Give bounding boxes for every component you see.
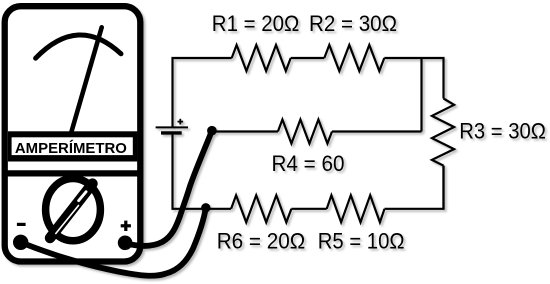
wire	[291, 57, 325, 59]
resistor R1	[232, 45, 291, 71]
wire bottom right	[385, 166, 444, 209]
node A (middle branch junction)	[207, 126, 217, 136]
svg-text:AMPERÍMETRO: AMPERÍMETRO	[15, 140, 127, 157]
svg-text:R2 = 30Ω: R2 = 30Ω	[309, 11, 397, 36]
probe wire positive	[125, 131, 212, 246]
wire	[291, 208, 326, 210]
svg-text:R4 = 60: R4 = 60	[272, 151, 345, 176]
resistor R2	[324, 45, 384, 71]
terminal positive	[118, 236, 133, 251]
wire top	[173, 58, 232, 127]
ammeter body (meter case)	[5, 6, 141, 261]
resistor R6	[231, 195, 291, 222]
divider line	[2, 170, 143, 176]
meter scale arc	[36, 35, 121, 58]
resistor R3	[432, 99, 454, 166]
wire	[332, 130, 422, 132]
wire vertical inner	[420, 58, 422, 132]
svg-text:R6 = 20Ω: R6 = 20Ω	[217, 228, 306, 253]
battery B1	[156, 119, 188, 133]
wire	[442, 166, 444, 209]
svg-text:R3 = 30Ω: R3 = 30Ω	[459, 119, 546, 144]
minus label	[17, 223, 26, 226]
resistor R4	[278, 120, 332, 144]
node B (bottom wire junction)	[201, 203, 210, 212]
resistor R5	[327, 195, 385, 222]
probe wire negative	[21, 208, 206, 276]
circuit wires	[173, 45, 455, 222]
svg-text:R5 = 10Ω: R5 = 10Ω	[318, 228, 405, 253]
wire bottom left	[173, 135, 232, 209]
wire middle	[212, 130, 278, 132]
wire	[384, 58, 443, 99]
terminal negative	[13, 235, 28, 250]
selector knob	[46, 179, 101, 241]
plus label	[121, 221, 131, 231]
svg-text:R1 = 20Ω: R1 = 20Ω	[212, 11, 299, 36]
meter needle	[71, 27, 102, 134]
label plate AMPERIMETRO	[8, 131, 138, 161]
